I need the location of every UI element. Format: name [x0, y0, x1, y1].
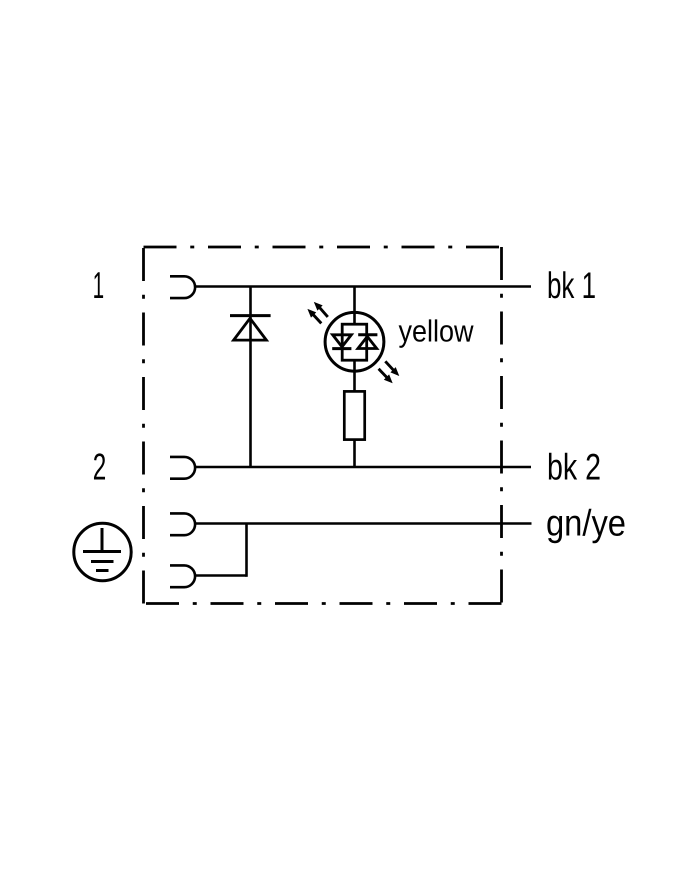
wire LED branch middle: [353, 360, 356, 392]
suppressor diode V1 cathode bar: [230, 314, 271, 317]
PE upper contact: [170, 513, 195, 535]
svg-text:yellow: yellow: [398, 315, 474, 349]
pin 1 contact: [170, 276, 195, 298]
resistor R1 body: [344, 391, 364, 439]
pin 2 contact: [170, 457, 195, 479]
svg-text:bk 1: bk 1: [547, 265, 596, 306]
wire PE lower pin stub: [195, 574, 247, 577]
LED right diode triangle (up): [358, 337, 377, 349]
PE symbol bar short: [96, 569, 109, 572]
LED left diode cathode bar: [332, 347, 351, 350]
border dash-dot frame bottom: [144, 602, 502, 605]
border dash-dot frame top: [144, 246, 502, 249]
PE symbol bar long: [83, 550, 121, 553]
LED inner frame: [342, 324, 367, 360]
wire LED branch upper: [353, 287, 356, 326]
wire diode branch vertical: [249, 287, 252, 468]
PE symbol bar mid: [91, 560, 114, 563]
PE lower contact: [170, 565, 195, 587]
svg-text:1: 1: [93, 264, 105, 306]
wire PE upper pin to gn/ye: [195, 522, 532, 525]
PE symbol stem: [101, 528, 104, 551]
wire PE vertical link: [245, 524, 248, 577]
border dash-dot frame right: [500, 247, 503, 604]
svg-text:2: 2: [93, 445, 107, 487]
LED light arrow up-left B: [309, 310, 322, 324]
LED left diode triangle (down): [333, 335, 352, 347]
LED circle: [325, 312, 384, 371]
border dash-dot frame left: [142, 247, 145, 604]
suppressor diode V1 triangle: [234, 318, 267, 340]
wire LED branch lower: [353, 440, 356, 467]
LED light arrow down-right D: [379, 369, 392, 382]
LED right diode bar: [358, 333, 377, 336]
PE symbol circle: [74, 523, 131, 580]
wire pin2 to bk2: [195, 466, 532, 469]
svg-text:bk 2: bk 2: [547, 447, 601, 488]
svg-text:gn/ye: gn/ye: [546, 503, 626, 544]
LED light arrow up-left A: [315, 303, 328, 317]
wire pin1 to bk1: [195, 285, 532, 288]
LED light arrow down-right C: [385, 361, 398, 375]
